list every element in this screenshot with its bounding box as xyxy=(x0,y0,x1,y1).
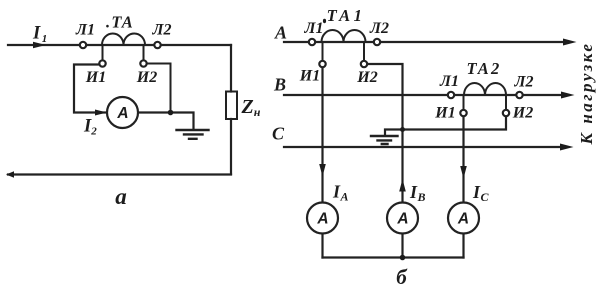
svg-text:И2: И2 xyxy=(136,69,157,86)
svg-text:И2: И2 xyxy=(512,105,533,122)
svg-text:И2: И2 xyxy=(356,69,377,86)
svg-text:A: A xyxy=(316,211,328,228)
svg-text:Л2: Л2 xyxy=(369,20,389,37)
svg-text:В: В xyxy=(273,75,286,95)
svg-text:A: A xyxy=(396,211,408,228)
svg-text:а: а xyxy=(115,184,127,209)
svg-text:Л2: Л2 xyxy=(514,74,534,91)
svg-text:.ТА: .ТА xyxy=(106,13,134,32)
svg-text:A: A xyxy=(457,211,469,228)
svg-text:И1: И1 xyxy=(434,105,455,122)
svg-text:И1: И1 xyxy=(299,68,320,85)
svg-text:A: A xyxy=(116,105,128,122)
svg-text:Л1: Л1 xyxy=(304,20,324,37)
svg-text:Л1: Л1 xyxy=(75,22,95,39)
svg-text:Л2: Л2 xyxy=(152,22,172,39)
svg-text:С: С xyxy=(272,124,285,144)
svg-text:ТА1: ТА1 xyxy=(327,6,366,25)
svg-text:К нагрузке: К нагрузке xyxy=(577,42,596,146)
svg-text:Л1: Л1 xyxy=(439,73,459,90)
svg-text:А: А xyxy=(274,23,287,43)
svg-text:И1: И1 xyxy=(85,69,106,86)
svg-text:б: б xyxy=(396,265,408,289)
svg-text:ТА2: ТА2 xyxy=(467,59,502,78)
